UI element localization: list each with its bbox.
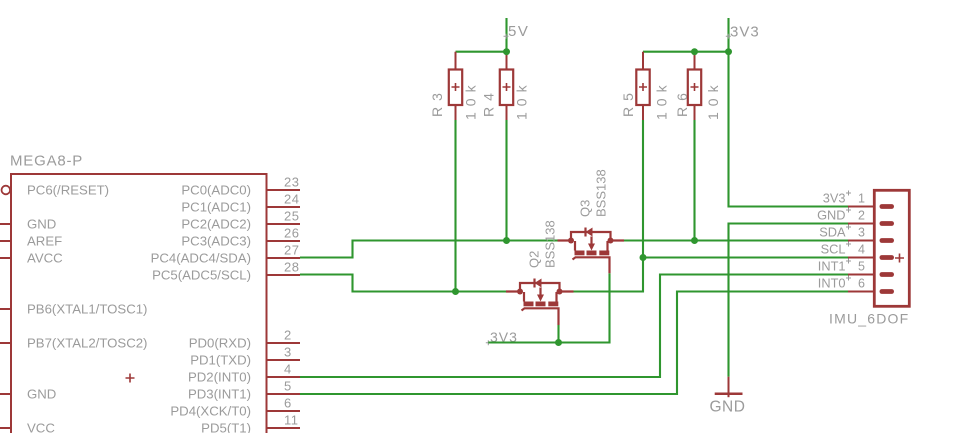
junction node 3V3 gate net / Q2 gate	[555, 339, 562, 346]
IC U1 MEGA8-P box	[10, 153, 267, 433]
resistor R4	[481, 52, 530, 120]
svg-text:GND: GND	[27, 217, 56, 232]
junction 5V rail / R4	[503, 48, 510, 55]
svg-text:27: 27	[284, 243, 299, 258]
supply 5V	[504, 18, 530, 52]
wire INT1: IMU pin5 to PD2	[300, 275, 848, 378]
svg-text:PD5(T1): PD5(T1)	[201, 421, 251, 433]
svg-text:AVCC: AVCC	[27, 251, 63, 266]
supply 3V3 top	[726, 18, 848, 207]
svg-text:AREF: AREF	[27, 234, 62, 249]
svg-text:4: 4	[858, 243, 865, 257]
wire GND: IMU pin2 down to ground	[729, 224, 849, 377]
wire SDA 5V side: pin27 to Q3 source	[300, 241, 558, 258]
resistor R3	[429, 52, 479, 120]
svg-text:3: 3	[284, 345, 292, 360]
svg-text:PC2(ADC2): PC2(ADC2)	[181, 217, 251, 232]
svg-text:MEGA8-P: MEGA8-P	[10, 153, 83, 170]
wire Q2 gate drop	[557, 325, 559, 343]
wire R5 pull-up down to SCL-3V3 line and Q2 drain	[574, 120, 644, 292]
svg-text:Q2: Q2	[527, 251, 542, 268]
svg-text:6: 6	[284, 396, 292, 411]
svg-text:INT1: INT1	[818, 259, 846, 274]
svg-text:26: 26	[284, 226, 299, 241]
connector J1 pin stubs	[848, 207, 873, 292]
svg-text:PC1(ADC1): PC1(ADC1)	[181, 200, 251, 215]
svg-text:GND: GND	[27, 387, 56, 402]
svg-text:2: 2	[284, 328, 292, 343]
svg-text:24: 24	[284, 192, 299, 207]
transistor Q2 BSS138	[506, 220, 574, 325]
svg-text:3V3: 3V3	[823, 191, 846, 206]
connector J1 pads	[880, 204, 895, 294]
net labels at connector	[817, 191, 846, 291]
connector J1 IMU_6DOF	[829, 190, 909, 326]
svg-text:5V: 5V	[508, 23, 529, 40]
svg-text:10k: 10k	[705, 79, 721, 120]
wire R6 pull-up to SDA-3V3 line	[693, 120, 695, 241]
net label origin crosses	[846, 191, 851, 281]
svg-text:5: 5	[858, 260, 865, 274]
svg-text:VCC: VCC	[27, 421, 55, 433]
IC U1 PC6 inversion bubble	[2, 186, 11, 195]
transistor Q3 BSS138	[558, 169, 625, 273]
svg-text:R6: R6	[674, 87, 690, 117]
svg-text:10k: 10k	[514, 79, 530, 120]
svg-text:PC6(/RESET): PC6(/RESET)	[27, 183, 109, 198]
svg-text:PD4(XCK/T0): PD4(XCK/T0)	[170, 404, 251, 419]
wire 3V3 rail	[643, 51, 729, 53]
svg-text:BSS138: BSS138	[594, 169, 609, 217]
svg-text:10k: 10k	[463, 79, 479, 120]
junction node SCL-3V3 / R5	[640, 254, 647, 261]
svg-text:PD1(TXD): PD1(TXD)	[190, 353, 251, 368]
svg-text:PD2(INT0): PD2(INT0)	[188, 370, 251, 385]
wire R4 pull-up to SDA line	[505, 120, 507, 241]
junction node SDA-3V3 / R6	[691, 237, 698, 244]
svg-text:23: 23	[284, 175, 299, 190]
resistor R6	[674, 52, 721, 120]
svg-text:GND: GND	[817, 208, 845, 223]
svg-text:PB6(XTAL1/TOSC1): PB6(XTAL1/TOSC1)	[27, 302, 147, 317]
svg-text:R4: R4	[481, 87, 497, 117]
svg-text:4: 4	[284, 362, 292, 377]
svg-text:6: 6	[858, 277, 865, 291]
svg-text:GND: GND	[710, 399, 746, 416]
svg-text:11: 11	[284, 413, 299, 428]
svg-text:10k: 10k	[654, 79, 670, 120]
svg-text:PD0(RXD): PD0(RXD)	[189, 336, 251, 351]
svg-text:PC0(ADC0): PC0(ADC0)	[181, 183, 251, 198]
resistor R5	[620, 52, 670, 120]
svg-text:R3: R3	[429, 87, 445, 117]
svg-text:PC4(ADC4/SDA): PC4(ADC4/SDA)	[151, 251, 251, 266]
wire INT0: IMU pin6 to PD3	[300, 292, 848, 395]
ground symbol GND	[710, 377, 746, 416]
wire SCL 5V side: pin28 to Q2 source	[300, 275, 506, 292]
svg-text:SDA: SDA	[819, 225, 846, 240]
svg-text:INT0: INT0	[818, 276, 846, 291]
svg-text:1: 1	[858, 192, 865, 206]
svg-text:PC3(ADC3): PC3(ADC3)	[181, 234, 251, 249]
svg-text:25: 25	[284, 209, 299, 224]
svg-text:PD3(INT1): PD3(INT1)	[188, 387, 251, 402]
wire R3 pull-up to SCL line	[454, 120, 456, 292]
IC U1 right pin names	[151, 183, 251, 433]
svg-text:28: 28	[284, 260, 299, 275]
svg-text:Q3: Q3	[578, 200, 593, 217]
svg-text:SCL: SCL	[821, 242, 846, 257]
svg-text:R5: R5	[620, 87, 636, 117]
svg-text:PB7(XTAL2/TOSC2): PB7(XTAL2/TOSC2)	[27, 336, 147, 351]
IC U1 right pin numbers	[284, 175, 299, 428]
wire SDA 3V3 side: Q3 drain to IMU pin3	[624, 239, 848, 241]
wire 3V3 to Q2/Q3 gates	[488, 273, 609, 342]
wire 5V rail	[456, 51, 507, 53]
connector J1 pin numbers	[858, 192, 865, 291]
svg-text:2: 2	[858, 209, 865, 223]
wire SCL 3V3 side to IMU pin4	[643, 256, 848, 258]
IC U1 left pin names	[27, 183, 147, 433]
svg-text:PC5(ADC5/SCL): PC5(ADC5/SCL)	[152, 268, 251, 283]
junction node SDA-5V / R4	[503, 237, 510, 244]
junction 3V3 rail / R6	[691, 48, 698, 55]
IC U1 right pin stubs	[267, 190, 301, 428]
svg-text:5: 5	[284, 379, 292, 394]
svg-text:IMU_6DOF: IMU_6DOF	[829, 311, 909, 327]
net label 3V3 mid	[486, 329, 518, 345]
svg-text:BSS138: BSS138	[543, 220, 558, 268]
IC U1 left pin stubs	[0, 224, 11, 428]
junction 3V3 rail / 3V3 drop	[725, 48, 732, 55]
junction node SCL-5V / R3	[452, 288, 459, 295]
svg-text:3V3: 3V3	[730, 23, 760, 40]
svg-text:3: 3	[858, 226, 865, 240]
IC U1 origin cross	[126, 374, 135, 383]
